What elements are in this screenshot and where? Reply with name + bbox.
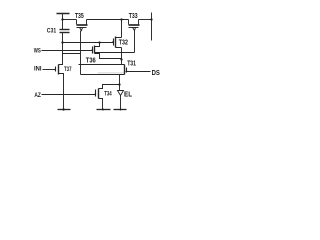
node rail-T32 junction <box>120 18 122 20</box>
wire left column to T37 <box>59 54 63 65</box>
wire T37 source column <box>59 74 64 110</box>
node T37 gate bump <box>54 69 56 71</box>
ground stub EL <box>114 109 127 111</box>
ground stub T37 <box>58 109 71 111</box>
wire C31 column lower <box>62 33 64 54</box>
svg-text:T32: T32 <box>119 39 128 47</box>
transistor T36 <box>93 46 95 54</box>
node T34 ground junction <box>102 109 104 111</box>
wire faint smear <box>98 72 125 74</box>
node T31 drain junction <box>120 58 122 60</box>
node T36 gate bump <box>92 49 94 51</box>
diode EL triangle <box>118 91 124 96</box>
wire box bottom / T31 source <box>81 74 125 76</box>
wire source drop to EL node <box>119 75 121 85</box>
svg-text:INI: INI <box>34 65 42 72</box>
wire right stub <box>151 13 153 41</box>
diode EL anode wire <box>119 85 121 91</box>
node EL ground junction <box>120 109 122 111</box>
svg-text:WS: WS <box>34 48 41 55</box>
wire T36 source staircase <box>95 54 122 59</box>
svg-text:T36: T36 <box>86 57 96 65</box>
wire T36 source to T33 gate <box>95 52 135 54</box>
transistor T33 <box>129 20 140 31</box>
transistor T34 <box>96 89 99 99</box>
svg-text:AZ: AZ <box>34 93 41 100</box>
wire T32 source down <box>116 48 122 60</box>
wire node A to T32 gate <box>63 42 114 44</box>
wire drain node line <box>79 64 125 66</box>
wire EL cathode <box>120 96 122 110</box>
svg-text:T31: T31 <box>127 60 136 68</box>
transistor T37 <box>56 65 59 75</box>
wire T34 source down <box>99 99 103 110</box>
svg-text:T37: T37 <box>64 66 71 73</box>
wire T31 drain <box>121 60 123 65</box>
wire T33 gate column <box>134 31 136 53</box>
node T34 gate bump <box>95 93 97 95</box>
svg-text:EL: EL <box>124 91 132 99</box>
wire EL node to T34 <box>99 85 120 89</box>
wire VDD rail <box>63 19 77 21</box>
node A junction <box>61 41 63 43</box>
transistor T32 <box>114 37 116 48</box>
wire node line to T35 gate <box>63 53 81 55</box>
svg-text:T33: T33 <box>129 12 138 20</box>
svg-text:T34: T34 <box>104 91 112 98</box>
node T37 ground junction <box>62 108 64 110</box>
wire rail right <box>139 19 152 21</box>
svg-text:DS: DS <box>152 69 161 77</box>
capacitor C31 <box>60 30 70 33</box>
wire AZ to T34 gate <box>42 94 96 96</box>
svg-text:C31: C31 <box>47 28 57 35</box>
node rail-C31 junction <box>61 18 63 20</box>
node EL anode junction <box>118 83 120 85</box>
node T32 gate bump <box>112 41 114 43</box>
wire T35 gate column <box>80 31 82 75</box>
transistor T35 <box>77 20 88 31</box>
node rail-right junction <box>150 18 152 20</box>
wire T32 drain to rail <box>116 20 122 38</box>
wire T31 gate to DS <box>127 71 151 73</box>
transistor T31 <box>125 65 127 75</box>
wire WS to T36 gate <box>42 50 93 52</box>
wire INI to T37 gate <box>43 69 56 71</box>
wire rail mid <box>87 19 129 21</box>
svg-text:T35: T35 <box>75 12 84 20</box>
node T36 drain junction <box>98 41 100 43</box>
node T31 gate bump <box>126 71 128 73</box>
wire C31 column upper <box>62 20 64 30</box>
wire T36 drain up <box>95 43 100 47</box>
power tee top-left <box>57 14 70 20</box>
ground stub T34 <box>97 109 111 111</box>
